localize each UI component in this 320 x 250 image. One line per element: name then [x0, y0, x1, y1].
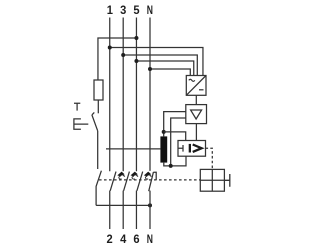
wire supply tap from line 1 to converter [110, 48, 203, 76]
wire pole 1 upper vertical [109, 18, 111, 172]
svg-text:5: 5 [133, 3, 139, 17]
svg-text:4: 4 [120, 232, 126, 246]
label T (test button) [74, 103, 80, 110]
wire supply tap from line N to converter [150, 69, 190, 76]
converter U1 (AC/DC supply) [186, 76, 206, 96]
wire CT secondary top to amplifier input [164, 112, 186, 137]
wire CT secondary bottom to amplifier input [171, 118, 186, 166]
pole 5 switch blade [137, 172, 143, 191]
node junction on line 3 [121, 53, 125, 57]
wire test current through CT [106, 148, 160, 150]
pole 1 trip hook [119, 176, 122, 179]
push-button actuator symbol [74, 119, 88, 129]
wire dashed relay to actuator [206, 148, 213, 169]
pole N switch blade [149, 172, 154, 191]
relay K1 box I> [178, 141, 206, 157]
test circuit lower contact blade [96, 171, 101, 206]
pole 3 trip hook [132, 176, 135, 179]
wire pole 6 lower vertical [135, 191, 137, 229]
wire CT bottom to relay I> [164, 156, 186, 166]
node junction on line 5 [134, 59, 138, 63]
actuator square with cross [200, 169, 224, 191]
pole 5 trip arrow [144, 172, 151, 177]
wire pole N lower vertical [149, 191, 151, 229]
current transformer core W1 (black bar) [160, 136, 167, 162]
wire pole 3 upper vertical [122, 18, 124, 172]
wire pole 2 lower vertical [109, 191, 111, 229]
mechanical linkage dashed line [99, 179, 200, 181]
pole 5 trip hook [145, 176, 148, 179]
wire resistor to test contact [97, 100, 99, 113]
wire test switch to lower contact [97, 131, 99, 169]
node junction on line N [148, 67, 152, 71]
pole 3 switch blade [124, 172, 130, 191]
wire pole 5 upper vertical [135, 18, 137, 172]
wire CT top to relay I> [164, 132, 186, 141]
wire test return to N [96, 204, 150, 206]
linkage bracket at pole N [153, 172, 156, 180]
resistor R (test resistor) [94, 80, 103, 100]
svg-text:1: 1 [107, 3, 113, 17]
svg-text:N: N [147, 232, 153, 246]
wire pole N upper vertical [149, 18, 151, 171]
actuator handle bar [224, 174, 229, 187]
amplifier U2 (triangle box) [186, 105, 207, 124]
test switch blade (upper) [92, 112, 98, 130]
wire pole 4 lower vertical [122, 191, 124, 229]
pole 3 trip arrow [131, 172, 138, 177]
node CT secondary top junction [162, 130, 166, 134]
wire supply tap from line 3 to converter [123, 55, 197, 76]
wire supply tap from line 5 to converter [136, 61, 193, 76]
node junction on line 5 (test branch) [134, 36, 138, 40]
svg-text:3: 3 [120, 3, 126, 17]
pole 1 trip arrow [117, 172, 124, 177]
svg-text:6: 6 [133, 232, 139, 246]
node CT secondary bottom junction [169, 164, 173, 168]
wire test branch horizontal from line 5 [98, 38, 137, 80]
wire converter to amplifier [195, 95, 197, 104]
wire amplifier to relay [195, 124, 197, 141]
svg-text:N: N [147, 3, 153, 17]
node junction test return on N [148, 203, 152, 207]
svg-text:2: 2 [107, 232, 113, 246]
node junction on line 1 [108, 46, 112, 50]
pole 1 switch blade [110, 172, 116, 191]
